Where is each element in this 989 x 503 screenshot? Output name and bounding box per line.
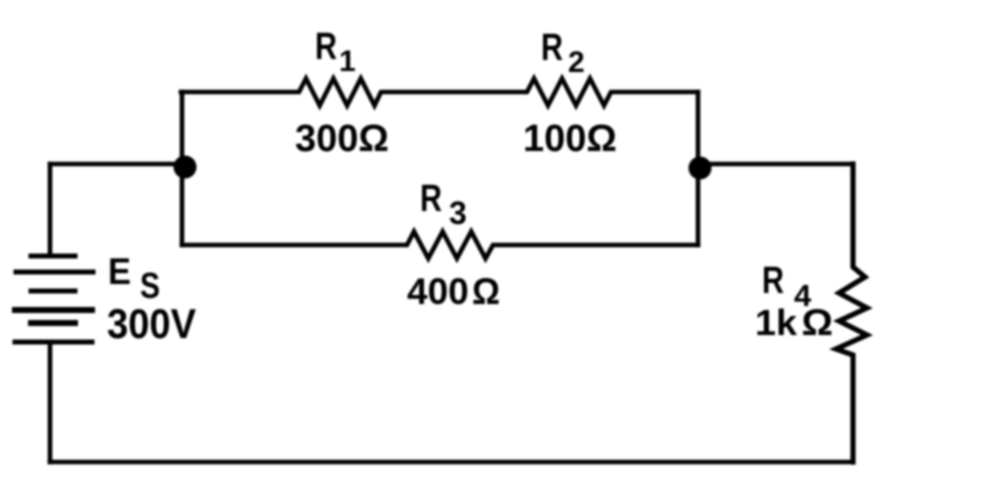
- svg-text:1k: 1k: [755, 302, 798, 343]
- svg-text:300V: 300V: [107, 300, 196, 347]
- svg-text:3: 3: [449, 195, 467, 231]
- svg-text:1: 1: [339, 45, 356, 78]
- svg-text:R: R: [762, 260, 784, 302]
- svg-text:400: 400: [407, 271, 469, 312]
- svg-text:R: R: [315, 26, 337, 68]
- svg-text:300Ω: 300Ω: [295, 118, 389, 160]
- svg-text:2: 2: [568, 46, 585, 79]
- svg-text:E: E: [108, 251, 131, 292]
- svg-text:Ω: Ω: [802, 302, 834, 343]
- svg-text:R: R: [420, 178, 442, 220]
- svg-text:100Ω: 100Ω: [523, 118, 617, 160]
- svg-text:R: R: [541, 27, 563, 69]
- svg-text:Ω: Ω: [472, 271, 500, 312]
